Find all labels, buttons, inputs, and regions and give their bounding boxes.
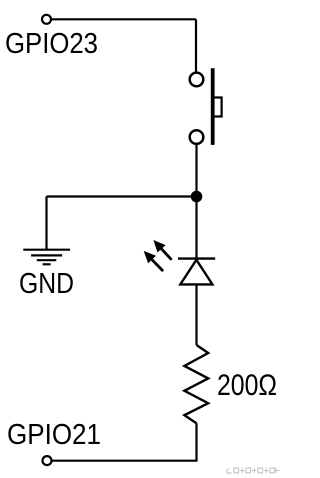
svg-text:GND: GND (19, 268, 74, 300)
wire ground vertical (45, 197, 47, 250)
terminal GPIO23 (42, 15, 51, 24)
ground (23, 250, 70, 265)
resistor R1 (184, 345, 208, 423)
wire top-right vertical to button (195, 19, 197, 71)
node junction (191, 191, 203, 203)
wire resistor to bottom corner (52, 423, 197, 460)
LED D1 (144, 240, 216, 284)
wire junction to ground (horizontal) (47, 195, 197, 197)
svg-text:GPIO23: GPIO23 (5, 28, 98, 60)
terminal GPIO21 (43, 456, 52, 465)
svg-text:200Ω: 200Ω (217, 369, 277, 402)
pushbutton S1 (190, 68, 222, 145)
wire button to junction (195, 145, 197, 197)
wire top horizontal (52, 18, 196, 20)
wire LED to resistor (195, 284, 197, 345)
watermark (227, 468, 280, 473)
wire junction to LED (195, 197, 197, 259)
svg-text:GPIO21: GPIO21 (7, 419, 101, 451)
